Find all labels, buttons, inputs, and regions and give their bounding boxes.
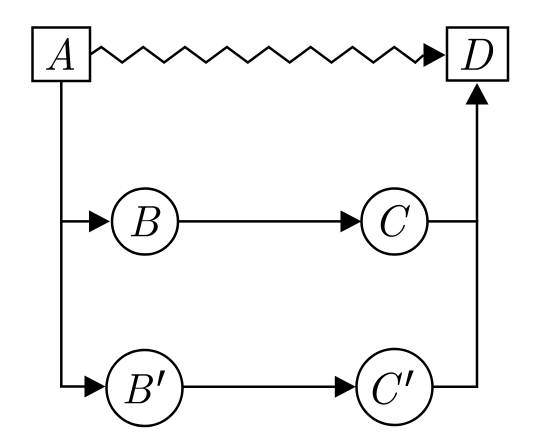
wire: B' to C' (183, 386, 336, 389)
arrowhead into C' (335, 376, 356, 398)
node A (square box) (33, 28, 91, 82)
wire: right vertical up to D (476, 103, 479, 388)
arrowhead into D left side (424, 43, 446, 67)
node B (circle) (112, 189, 178, 255)
label B (131, 206, 160, 236)
prime mark of B' (157, 371, 165, 386)
wire: corner A to B' horizontal (60, 385, 86, 388)
arrowhead into C (341, 210, 362, 232)
wire: zigzag squiggly arrow A to D (91, 47, 424, 63)
label D (461, 39, 493, 70)
node B' (circle) (107, 350, 183, 426)
node D (square box) (447, 28, 508, 81)
circle of node C (362, 189, 428, 255)
wire: B to C (178, 220, 341, 223)
wire: C to right vertical (428, 220, 479, 223)
label C of C' (373, 372, 402, 404)
wire: C' to right vertical corner (433, 386, 477, 389)
label C (381, 205, 410, 237)
arrowhead into D bottom (466, 83, 489, 105)
prime mark of C' (405, 371, 413, 387)
arrowhead into B' (85, 376, 106, 398)
wire: branch A to B horizontal (60, 220, 90, 223)
circle of node B (112, 189, 178, 255)
label A (46, 38, 74, 70)
label B of B' (124, 374, 152, 403)
node C (circle) (362, 189, 428, 255)
box of node A (33, 28, 91, 82)
node C' (circle) (357, 349, 433, 425)
box of node D (447, 28, 508, 81)
circle of node C' (357, 349, 433, 425)
arrowhead into B (89, 210, 110, 232)
circle of node B' (107, 350, 183, 426)
wire: vertical line from A down (60, 82, 63, 387)
